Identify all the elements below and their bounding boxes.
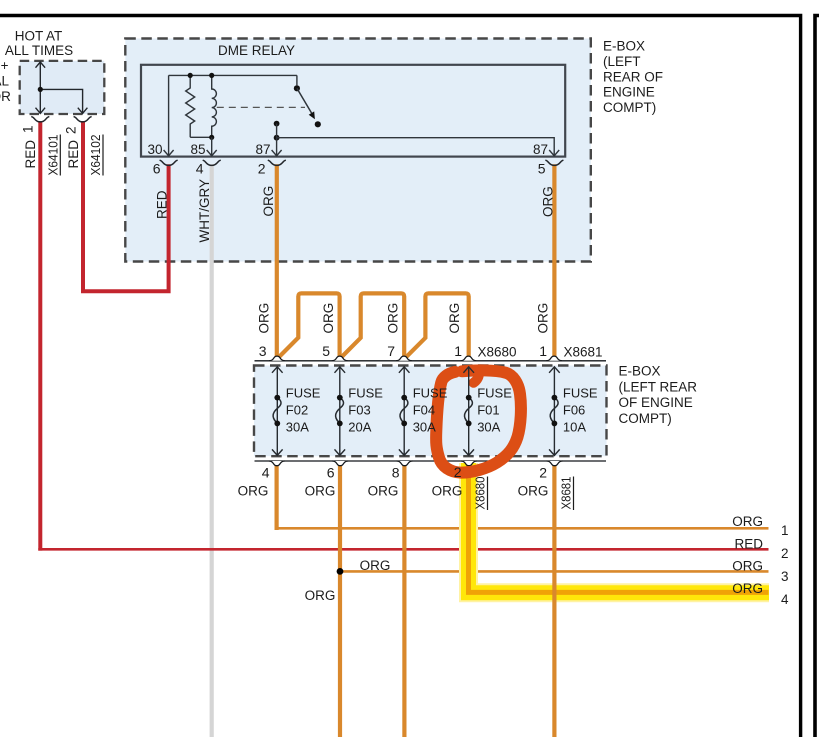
wire 1 ORG from fuse pin4 to right edge [275, 465, 279, 530]
svg-text:8: 8 [392, 465, 400, 481]
fuse box (E-BOX) dashed box [254, 366, 607, 457]
svg-text:1: 1 [781, 523, 789, 538]
hand drawn highlight circle around fuse F01 [436, 370, 521, 472]
svg-text:E-BOX: E-BOX [603, 39, 645, 54]
svg-text:5: 5 [322, 343, 330, 359]
svg-text:ORG: ORG [732, 559, 763, 574]
svg-text:WHT/GRY: WHT/GRY [197, 179, 212, 243]
top connector bumps pins 3 5 7 1 1 [269, 356, 562, 361]
svg-text:30A: 30A [286, 420, 309, 435]
wire ORG fuse pin8 to bottom [402, 465, 406, 737]
bottom connector bumps pins 4 6 8 2 2 [269, 461, 563, 466]
svg-text:1: 1 [539, 343, 547, 359]
junction dot in HOT box [38, 87, 43, 92]
wire ORG fuse pin6 to bottom [338, 465, 342, 737]
svg-text:F06: F06 [563, 403, 585, 418]
fuse F06 [549, 367, 560, 456]
fuse box bottom connector rail line [255, 460, 607, 462]
svg-text:ORG: ORG [535, 303, 550, 334]
pin 85 lead [211, 137, 213, 155]
svg-text:FUSE: FUSE [413, 386, 448, 401]
relay supply wire to pin 30 [169, 75, 297, 155]
svg-text:S+: S+ [0, 58, 9, 73]
svg-text:HOT AT: HOT AT [15, 29, 63, 44]
fuse F03 [335, 367, 346, 456]
relay coil [212, 75, 217, 137]
svg-text:ORG: ORG [305, 588, 336, 603]
svg-text:ORG: ORG [732, 581, 763, 596]
wire ORG fuse pin2 X8681 to bottom [552, 465, 556, 737]
svg-text:COMPT): COMPT) [619, 411, 672, 426]
svg-text:ORG: ORG [261, 186, 276, 217]
wire ORG loop fuse pin3 to pin5 [279, 293, 340, 357]
svg-text:ORG: ORG [732, 514, 763, 529]
svg-text:3: 3 [781, 569, 789, 584]
fuse F02 [272, 367, 283, 456]
wire 2 RED horizontal to right edge [38, 548, 768, 551]
svg-text:ORG: ORG [385, 303, 400, 334]
relay actuation dashed line [217, 106, 305, 108]
svg-text:2: 2 [454, 464, 462, 480]
junction dots relay coil [188, 73, 193, 78]
svg-text:RED: RED [23, 140, 38, 169]
resistor-coil bottom link [190, 136, 212, 138]
relay switch pivot [296, 75, 298, 85]
svg-text:7: 7 [387, 343, 395, 359]
svg-text:30A: 30A [413, 420, 436, 435]
connector cup X64101 [31, 116, 49, 122]
highlight circle pen start stub [474, 370, 480, 383]
power feed arrow up/down in HOT box [36, 62, 88, 113]
svg-text:3: 3 [259, 343, 267, 359]
wire RED from X64102 pin2 to relay pin6 [83, 121, 169, 291]
svg-text:(LEFT REAR: (LEFT REAR [619, 379, 698, 394]
svg-text:2: 2 [781, 546, 789, 561]
svg-text:ORG: ORG [447, 303, 462, 334]
svg-text:87: 87 [255, 142, 270, 157]
svg-text:REAR OF: REAR OF [603, 70, 663, 85]
DME relay dashed box [125, 39, 591, 262]
connector cup X64102 [74, 116, 92, 122]
svg-text:6: 6 [153, 161, 161, 177]
svg-text:4: 4 [262, 465, 270, 481]
svg-text:1: 1 [454, 343, 462, 359]
svg-text:X8680: X8680 [473, 477, 488, 510]
svg-text:ORG: ORG [368, 484, 399, 499]
svg-text:ORG: ORG [257, 303, 272, 334]
svg-text:DME RELAY: DME RELAY [218, 43, 295, 58]
relay switch arm with arrowhead [297, 88, 312, 113]
power feed branch to X64102 [40, 89, 82, 113]
svg-text:AL: AL [0, 74, 9, 89]
pin 87 bus wire to right pin 87 [277, 138, 555, 156]
wire RED from X64101 pin1 vertical [38, 121, 42, 551]
svg-text:ENGINE: ENGINE [603, 85, 655, 100]
svg-text:4: 4 [196, 161, 204, 177]
svg-text:20A: 20A [348, 420, 371, 435]
wire 4 ORG core of highlighted wire [469, 464, 769, 593]
svg-text:2: 2 [539, 465, 547, 481]
svg-text:85: 85 [190, 142, 205, 157]
svg-text:F02: F02 [286, 403, 308, 418]
svg-text:FUSE: FUSE [286, 386, 321, 401]
svg-text:F03: F03 [348, 403, 370, 418]
wire ORG relay pin2 to fuse pin3 [275, 164, 279, 357]
fuse F01 [463, 367, 474, 456]
fuse F04 [399, 367, 410, 456]
wire ORG relay pin5 to fuse pin1 X8681 [552, 164, 556, 357]
svg-text:10A: 10A [563, 420, 586, 435]
svg-text:RED: RED [155, 190, 170, 219]
svg-text:E-BOX: E-BOX [619, 364, 661, 379]
svg-text:X8681: X8681 [564, 345, 603, 360]
relay pin cups 6 4 2 5 [160, 160, 178, 165]
svg-text:ORG: ORG [238, 484, 269, 499]
svg-text:ORG: ORG [305, 484, 336, 499]
wire 3 ORG horizontal from junction [340, 570, 769, 573]
svg-text:RED: RED [734, 537, 763, 552]
svg-text:2: 2 [258, 161, 266, 177]
wire WHT/GRY from relay pin4 to bottom [210, 164, 214, 737]
wire ORG loop fuse pin5 to pin7 [341, 293, 404, 357]
power source box HOT AT ALL TIMES [20, 61, 105, 114]
svg-text:ORG: ORG [541, 186, 556, 217]
svg-text:ALL TIMES: ALL TIMES [5, 43, 73, 58]
svg-text:30: 30 [147, 142, 162, 157]
svg-text:6: 6 [327, 465, 335, 481]
svg-text:FUSE: FUSE [477, 386, 512, 401]
svg-text:OR: OR [0, 89, 11, 104]
svg-text:ORG: ORG [321, 303, 336, 334]
svg-text:OF ENGINE: OF ENGINE [619, 395, 693, 410]
svg-text:(LEFT: (LEFT [603, 54, 641, 69]
svg-text:1: 1 [21, 125, 36, 133]
svg-text:ORG: ORG [360, 558, 391, 573]
svg-text:ORG: ORG [518, 484, 549, 499]
svg-text:X8681: X8681 [559, 477, 574, 510]
svg-text:F01: F01 [477, 403, 499, 418]
junction dot wire3 [337, 568, 344, 575]
relay inner case outline [141, 65, 565, 157]
resistor (relay coil suppression) [186, 75, 195, 137]
svg-text:F04: F04 [413, 403, 435, 418]
wire ORG loop fuse pin7 to pin1 X8680 [406, 293, 469, 357]
svg-text:FUSE: FUSE [563, 386, 598, 401]
svg-text:2: 2 [64, 126, 79, 134]
svg-text:X64102: X64102 [88, 135, 103, 176]
adjacent page left border [815, 16, 819, 737]
svg-text:30A: 30A [477, 420, 500, 435]
svg-text:X8680: X8680 [478, 345, 517, 360]
svg-text:FUSE: FUSE [348, 386, 383, 401]
relay switch contact dot [315, 121, 321, 127]
svg-text:ORG: ORG [432, 484, 463, 499]
wire 4 highlighted yellow band [469, 463, 770, 593]
svg-text:87: 87 [533, 142, 548, 157]
svg-text:5: 5 [538, 161, 546, 177]
pin 87 left leads and dots [274, 121, 280, 127]
svg-text:RED: RED [66, 140, 81, 169]
fuse box top connector rail line [255, 360, 607, 362]
svg-text:X64101: X64101 [46, 135, 61, 176]
svg-text:4: 4 [781, 592, 789, 607]
svg-text:COMPT): COMPT) [603, 100, 656, 115]
